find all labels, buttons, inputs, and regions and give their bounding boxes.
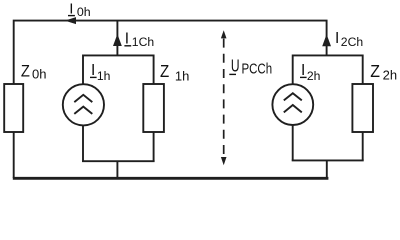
arrow I2Ch (points up) <box>322 34 331 46</box>
impedance Z0h box <box>4 84 23 132</box>
label I2Ch <box>335 30 363 49</box>
wire: I1Ch vertical from top bus to branch-1 top <box>116 21 118 56</box>
svg-text:2h: 2h <box>383 68 397 83</box>
wire: branch-2 top rail with drops to source 2 and Z2h <box>293 55 363 84</box>
label Z0h <box>21 62 47 82</box>
impedance Z1h box <box>143 84 164 132</box>
wire: source 2 bottom lead <box>292 125 294 160</box>
svg-text:1h: 1h <box>97 69 111 83</box>
svg-text:1h: 1h <box>175 68 189 83</box>
wire: branch-2 stub to bottom bus <box>326 160 328 178</box>
wire: branch-1 stub to bottom bus <box>116 161 118 178</box>
wire: branch-2 bottom rail <box>292 159 364 161</box>
current source I1h circle <box>63 84 104 125</box>
label I1h <box>90 62 110 83</box>
impedance Z2h box <box>352 84 373 132</box>
svg-text:2Ch: 2Ch <box>341 35 363 49</box>
svg-text:Z: Z <box>160 61 169 81</box>
bottom bus (thick) <box>13 177 329 180</box>
svg-text:Z: Z <box>21 62 30 81</box>
current source I2h circle <box>272 84 313 125</box>
wire: left drop from Z0h to bottom bus <box>13 132 15 178</box>
svg-text:2h: 2h <box>307 69 321 83</box>
current source I2h chevrons <box>284 93 302 112</box>
current source I1h chevrons <box>74 95 92 114</box>
svg-text:0h: 0h <box>32 67 46 82</box>
wire: Z2h bottom lead <box>362 132 364 160</box>
wire: top bus with left drop to Z0h and right drop to branch-2 top <box>14 21 327 84</box>
wire: branch-1 bottom rail <box>82 160 155 162</box>
label I2h <box>300 62 320 83</box>
arrow I0h on top bus (points left) <box>65 17 76 24</box>
wire: Z1h bottom lead <box>153 132 155 161</box>
svg-text:1Ch: 1Ch <box>132 35 154 49</box>
label I1Ch <box>124 31 154 50</box>
svg-text:I: I <box>125 31 129 48</box>
label I0h <box>68 1 91 19</box>
arrow I1Ch (points up) <box>113 34 122 46</box>
label UPCCh <box>229 56 272 78</box>
svg-text:PCCh: PCCh <box>242 62 273 78</box>
wire: branch-1 top rail with drops to source 1 and Z1h <box>83 55 154 84</box>
svg-text:I: I <box>335 30 339 47</box>
wire: source 1 bottom lead <box>82 125 84 161</box>
svg-text:I: I <box>301 62 305 79</box>
svg-text:I: I <box>91 62 95 79</box>
node UPCCh dashed voltage arrow <box>221 30 227 165</box>
label Z1h <box>160 61 189 83</box>
label Z2h <box>370 61 397 83</box>
svg-text:0h: 0h <box>77 5 91 19</box>
svg-text:Z: Z <box>370 61 380 81</box>
svg-text:U: U <box>231 56 240 76</box>
